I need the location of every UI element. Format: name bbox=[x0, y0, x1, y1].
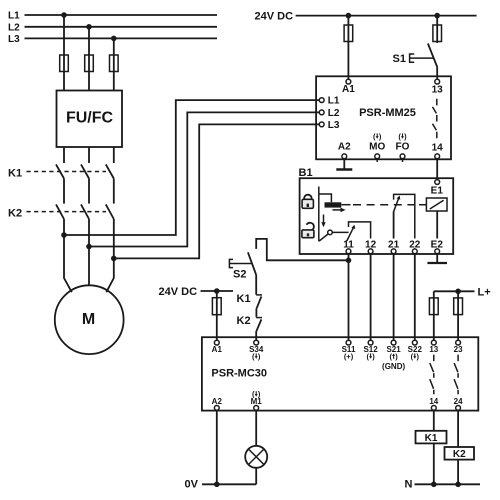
junction phase3 bbox=[111, 256, 117, 262]
fuse phase3 bbox=[110, 55, 119, 72]
wire tap3 to PSR-MM25 L3 bbox=[114, 124, 320, 258]
node L2 bbox=[8, 23, 217, 34]
terminal MO MM25 bbox=[369, 142, 385, 162]
safety relay PSR-MC30 bbox=[202, 337, 478, 410]
terminal M1 MC30 bbox=[251, 390, 263, 411]
wire lamp to 0V bbox=[255, 468, 257, 485]
wire K1 aux to K2 aux bbox=[255, 308, 257, 317]
door step bbox=[319, 194, 332, 202]
wire phase2 to tap bbox=[88, 219, 90, 247]
door contact bbox=[319, 230, 349, 241]
lock bolt bbox=[325, 202, 342, 207]
wire phase1 mid bbox=[63, 179, 65, 204]
wire tap1 to PSR-MM25 L1 bbox=[64, 100, 319, 235]
svg-text:12: 12 bbox=[365, 239, 377, 250]
aux contact K2 bbox=[237, 315, 263, 331]
svg-text:PSR-MM25: PSR-MM25 bbox=[359, 107, 416, 119]
padlock open icon bbox=[302, 221, 316, 238]
svg-text:22: 22 bbox=[409, 239, 421, 250]
svg-text:B1: B1 bbox=[299, 167, 313, 179]
terminal FO MM25 bbox=[396, 142, 410, 162]
contactor K1 linkage dashes bbox=[27, 171, 107, 173]
wire M1 to lamp bbox=[255, 410, 257, 446]
ground at A2 MM25 bbox=[336, 159, 352, 170]
wire 14 to K1 coil bbox=[433, 410, 435, 430]
junction 24V lower bbox=[214, 288, 220, 294]
junction 0V bbox=[214, 482, 220, 488]
terminal 22 B1 bbox=[409, 239, 421, 253]
contactor coil K1 bbox=[416, 431, 447, 444]
contactor K2 contact b bbox=[81, 204, 89, 219]
door down arrow bbox=[321, 215, 325, 228]
svg-text:E2: E2 bbox=[431, 239, 444, 250]
wire motor lead1 bbox=[64, 235, 72, 292]
svg-text:S2: S2 bbox=[233, 269, 246, 281]
wire tap2 to PSR-MM25 L2 bbox=[89, 112, 319, 246]
svg-text:L2: L2 bbox=[328, 108, 340, 119]
svg-text:(GND): (GND) bbox=[382, 362, 405, 371]
node 24V DC lower bbox=[159, 286, 234, 298]
wire phase3 to tap bbox=[113, 219, 115, 258]
aux contact K1 bbox=[237, 293, 263, 308]
fuse 24V lower bbox=[212, 298, 221, 315]
wire 14 to E1 bbox=[436, 159, 438, 180]
wire K2 coil to N bbox=[457, 460, 459, 485]
terminal 21 B1 bbox=[388, 239, 400, 253]
wire 22 to S22 bbox=[414, 254, 416, 341]
contactor K1 contact b bbox=[81, 164, 89, 178]
wire phase1 to tap bbox=[63, 219, 65, 235]
node N bbox=[405, 479, 481, 491]
safety relay PSR-MM25 bbox=[316, 76, 451, 159]
terminal 13 MM25 bbox=[432, 79, 444, 95]
contactor K2 contact a bbox=[56, 204, 64, 219]
wire K1 coil to N bbox=[433, 443, 435, 484]
svg-text:24: 24 bbox=[454, 397, 463, 406]
svg-text:14: 14 bbox=[432, 142, 444, 153]
wire phase3 drop bbox=[113, 38, 115, 90]
door guide line bbox=[318, 187, 320, 242]
terminal A1 MM25 bbox=[342, 79, 355, 95]
svg-text:E1: E1 bbox=[431, 186, 444, 197]
node L1 bbox=[8, 11, 217, 22]
wire phase2 drop bbox=[88, 27, 90, 91]
wire phase1 drop bbox=[63, 15, 65, 91]
svg-text:L3: L3 bbox=[328, 120, 340, 131]
fuse phase1 bbox=[60, 55, 69, 72]
terminal 23 MC30 bbox=[454, 340, 463, 354]
wire L+ to fuse 13 bbox=[433, 291, 435, 340]
motor M bbox=[55, 285, 124, 354]
terminal 24 MC30 bbox=[454, 397, 463, 410]
junction S2 tap bbox=[346, 258, 352, 264]
svg-text:N: N bbox=[405, 479, 413, 491]
internal contact 23-24 MC30 bbox=[454, 355, 458, 395]
padlock closed icon bbox=[302, 195, 313, 209]
terminal 14 MM25 bbox=[432, 142, 444, 158]
bolt arrow bbox=[332, 208, 345, 213]
junction N K2 bbox=[455, 482, 461, 488]
terminal S34 MC30 bbox=[249, 340, 264, 361]
svg-text:L3: L3 bbox=[8, 34, 20, 45]
frequency converter FU/FC bbox=[57, 91, 123, 148]
junction L3 tap bbox=[111, 36, 117, 42]
terminal 13 MC30 bbox=[429, 340, 438, 354]
svg-text:L1: L1 bbox=[328, 96, 340, 107]
wire phase3 below FU/FC bbox=[113, 147, 115, 163]
svg-text:FU/FC: FU/FC bbox=[66, 110, 114, 127]
svg-text:(+): (+) bbox=[344, 352, 354, 361]
fuse L+ 13 bbox=[429, 298, 438, 315]
relay coil E1-E2 bbox=[419, 198, 447, 239]
wire K2 aux to S34 bbox=[255, 331, 257, 340]
switch S1 bbox=[393, 44, 438, 80]
terminal A2 MC30 bbox=[212, 397, 223, 410]
wire S2 to junction bbox=[256, 239, 348, 260]
svg-text:L2: L2 bbox=[8, 23, 20, 34]
svg-text:0V: 0V bbox=[185, 479, 199, 491]
wire phase2 mid bbox=[88, 179, 90, 204]
terminal 12 B1 bbox=[365, 239, 377, 253]
svg-text:A2: A2 bbox=[212, 397, 223, 406]
svg-text:L+: L+ bbox=[478, 286, 491, 298]
ground at E2 bbox=[427, 254, 447, 263]
terminal L1 MM25 bbox=[319, 96, 340, 107]
wire phase1 below FU/FC bbox=[63, 147, 65, 163]
terminal A1 MC30 bbox=[212, 340, 223, 354]
internal contact 13-14 MC30 bbox=[430, 355, 434, 395]
svg-text:K2: K2 bbox=[237, 315, 251, 327]
wire 24V to fuse S1 bbox=[436, 16, 438, 43]
fuse phase2 bbox=[85, 55, 94, 72]
svg-text:24V DC: 24V DC bbox=[159, 286, 198, 298]
contact 21-22 B1 bbox=[394, 194, 415, 238]
contactor K2 contact c bbox=[106, 204, 114, 219]
node L3 bbox=[8, 34, 217, 45]
junction L1 tap bbox=[61, 12, 67, 18]
svg-text:S1: S1 bbox=[393, 53, 406, 65]
svg-text:24V DC: 24V DC bbox=[255, 11, 294, 23]
junction phase2 bbox=[86, 244, 92, 250]
terminal L3 MM25 bbox=[319, 120, 340, 131]
svg-text:PSR-MC30: PSR-MC30 bbox=[211, 368, 267, 380]
node L+ bbox=[434, 286, 491, 298]
junction N K1 bbox=[431, 482, 437, 488]
svg-text:L1: L1 bbox=[8, 11, 20, 22]
svg-text:14: 14 bbox=[429, 397, 438, 406]
svg-text:11: 11 bbox=[343, 239, 354, 250]
wire 24 to K2 coil bbox=[457, 410, 459, 447]
interlock module B1 bbox=[299, 167, 454, 254]
terminal E1 B1 bbox=[431, 180, 444, 197]
junction phase1 bbox=[61, 232, 67, 238]
svg-text:K2: K2 bbox=[453, 449, 466, 460]
switch S2 bbox=[229, 252, 256, 280]
wire 24V to fuse A1 bbox=[347, 16, 349, 80]
terminal S12 MC30 bbox=[363, 340, 378, 361]
wire 12 to S12 bbox=[370, 254, 372, 341]
terminal S22 MC30 bbox=[408, 340, 423, 361]
wire A2 to 0V bbox=[216, 410, 218, 484]
junction L2 tap bbox=[86, 24, 92, 30]
svg-text:K1: K1 bbox=[8, 167, 22, 179]
wire 11 to S11 bbox=[348, 254, 350, 341]
svg-text:MO: MO bbox=[369, 142, 385, 153]
svg-text:A1: A1 bbox=[212, 345, 223, 354]
wire S2 to K1 aux bbox=[255, 275, 257, 295]
terminal A2 MM25 bbox=[338, 142, 351, 159]
terminal E2 B1 bbox=[431, 239, 444, 253]
wire phase2 below FU/FC bbox=[88, 147, 90, 163]
junction L+ bbox=[455, 289, 461, 295]
wire L+ to fuse 23 bbox=[457, 291, 459, 340]
fuse 24V A1 bbox=[344, 25, 353, 42]
svg-text:K1: K1 bbox=[425, 433, 438, 444]
wire motor lead2 bbox=[88, 247, 90, 286]
junction 24V feed 13 bbox=[434, 13, 440, 19]
contactor K2 linkage dashes bbox=[27, 211, 107, 213]
internal contact 13-14 MM25 bbox=[433, 99, 437, 139]
wire 21 to S21 bbox=[393, 254, 395, 341]
svg-text:K2: K2 bbox=[8, 207, 22, 219]
svg-text:A1: A1 bbox=[342, 84, 355, 95]
terminal 14 MC30 bbox=[429, 397, 438, 410]
svg-text:13: 13 bbox=[432, 85, 444, 96]
wire motor lead3 bbox=[106, 258, 114, 292]
svg-text:13: 13 bbox=[429, 345, 438, 354]
svg-text:FO: FO bbox=[396, 142, 410, 153]
contactor K1 contact a bbox=[56, 164, 64, 178]
wire phase3 mid bbox=[113, 179, 115, 204]
node 24V DC top bbox=[255, 11, 477, 23]
contact 11-12 B1 bbox=[347, 222, 371, 241]
svg-text:21: 21 bbox=[388, 239, 400, 250]
indicator lamp bbox=[245, 446, 267, 468]
node 0V bbox=[185, 479, 257, 491]
contactor K1 contact c bbox=[106, 164, 114, 178]
terminal 11 B1 bbox=[343, 239, 354, 253]
fuse L+ 23 bbox=[454, 298, 463, 315]
terminal S21 MC30 bbox=[386, 340, 401, 361]
terminal L2 MM25 bbox=[319, 108, 340, 119]
svg-text:K1: K1 bbox=[237, 293, 251, 305]
fuse 24V S1 bbox=[433, 25, 442, 42]
mechanism dashed link bbox=[341, 204, 350, 206]
contactor coil K2 bbox=[445, 447, 475, 460]
svg-text:M: M bbox=[82, 311, 95, 328]
wire 24V lower to fuse bbox=[216, 291, 218, 340]
svg-text:A2: A2 bbox=[338, 142, 351, 153]
terminal S11 MC30 bbox=[342, 340, 356, 361]
svg-text:23: 23 bbox=[454, 345, 463, 354]
junction 24V feed A1 bbox=[346, 13, 352, 19]
